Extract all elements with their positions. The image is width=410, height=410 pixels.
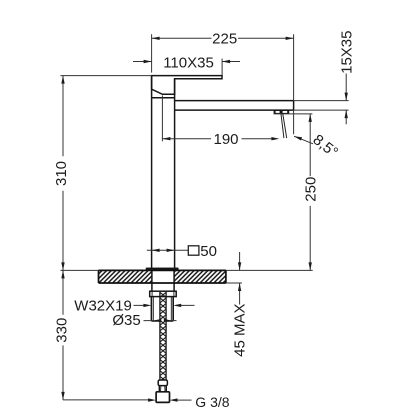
flexible braided hose bbox=[160, 292, 167, 380]
aerator block at spout end bbox=[274, 110, 290, 114]
8,5 deg leader bbox=[294, 136, 313, 144]
arrow 8,5 deg leader bbox=[294, 136, 302, 140]
diam 35 leader tails bbox=[144, 320, 177, 322]
spout top extension to 15X35 bbox=[294, 100, 349, 102]
body cap top bbox=[152, 97, 175, 99]
ext line x=222.1 bbox=[221, 59, 223, 75]
svg-text:330: 330 bbox=[53, 318, 70, 343]
G 3/8 leader tail bbox=[177, 399, 192, 401]
arrows dim 250 bbox=[309, 114, 312, 122]
svg-text:45 MAX: 45 MAX bbox=[231, 304, 248, 357]
counter bottom extension right bbox=[226, 282, 242, 284]
dim 110X35 arrows tails bbox=[133, 61, 240, 63]
fixing nut under counter bbox=[150, 291, 177, 296]
arrows 45 MAX bbox=[238, 262, 241, 270]
svg-text:Ø35: Ø35 bbox=[112, 312, 140, 329]
svg-text:190: 190 bbox=[213, 131, 238, 148]
dim 190 line bbox=[162, 138, 272, 140]
45 MAX arrow stems bbox=[239, 252, 241, 305]
dim 225 line bbox=[152, 37, 294, 39]
bottom extension line to hose nut bbox=[63, 399, 149, 401]
arrows G 3/8 bbox=[148, 398, 156, 401]
arrows W32X19 bbox=[143, 304, 151, 307]
arrow dim 310 top bbox=[61, 76, 64, 84]
spout end face bbox=[293, 101, 295, 111]
hose end nut G 3/8 bbox=[156, 392, 169, 403]
lever handle (110x35) outline bbox=[152, 76, 222, 95]
ext line x=162.4 bbox=[161, 96, 163, 142]
counter top extension right bbox=[226, 269, 313, 271]
square symbol for 50 bbox=[188, 246, 199, 255]
hose crimp collar bbox=[156, 380, 169, 402]
dim 310/330 line x=63 bbox=[62, 76, 64, 400]
svg-text:50: 50 bbox=[200, 243, 217, 260]
dim 250 line bbox=[309, 114, 311, 271]
arrows dim 225 bbox=[152, 37, 160, 40]
ext line right x=293.6 bbox=[293, 34, 295, 134]
square-50 leader line bbox=[147, 249, 189, 251]
body column left edge bbox=[151, 76, 153, 269]
spout bottom extension bbox=[294, 109, 349, 111]
countertop slab with hatch bbox=[99, 270, 226, 283]
svg-text:G 3/8: G 3/8 bbox=[195, 394, 229, 410]
ext line left x=151.6 bbox=[151, 34, 153, 72]
base plate square 50 bbox=[147, 268, 178, 270]
shank through counter bbox=[152, 270, 174, 291]
threaded shank W32x19 bbox=[151, 297, 173, 321]
svg-text:110X35: 110X35 bbox=[163, 54, 214, 71]
spout top edge bbox=[175, 100, 294, 102]
W32X19 leader tails bbox=[134, 304, 195, 306]
svg-text:225: 225 bbox=[212, 30, 237, 47]
arrows diam 35 bbox=[153, 319, 161, 322]
svg-text:15X35: 15X35 bbox=[338, 31, 355, 74]
svg-text:310: 310 bbox=[53, 161, 70, 186]
water stream angle lines bbox=[281, 114, 287, 138]
arrows dim 190 bbox=[162, 137, 170, 140]
arrows dim 110X35 bbox=[144, 60, 152, 63]
body column right edge bbox=[174, 79, 176, 269]
spout bottom edge bbox=[175, 109, 294, 111]
arrowheads bbox=[61, 37, 348, 402]
counter top extension to the left bbox=[61, 269, 99, 271]
aerator bottom extension bbox=[274, 113, 313, 115]
arrow dim 330 bottom bbox=[61, 392, 64, 400]
arrows dim 310/330 at counter bbox=[61, 262, 64, 270]
svg-text:250: 250 bbox=[303, 177, 320, 202]
15X35 arrow stems bbox=[345, 74, 347, 125]
arrows square-50 bbox=[152, 249, 160, 252]
arrows dim 15X35 bbox=[345, 93, 348, 101]
lever top extension to the left bbox=[61, 75, 152, 77]
